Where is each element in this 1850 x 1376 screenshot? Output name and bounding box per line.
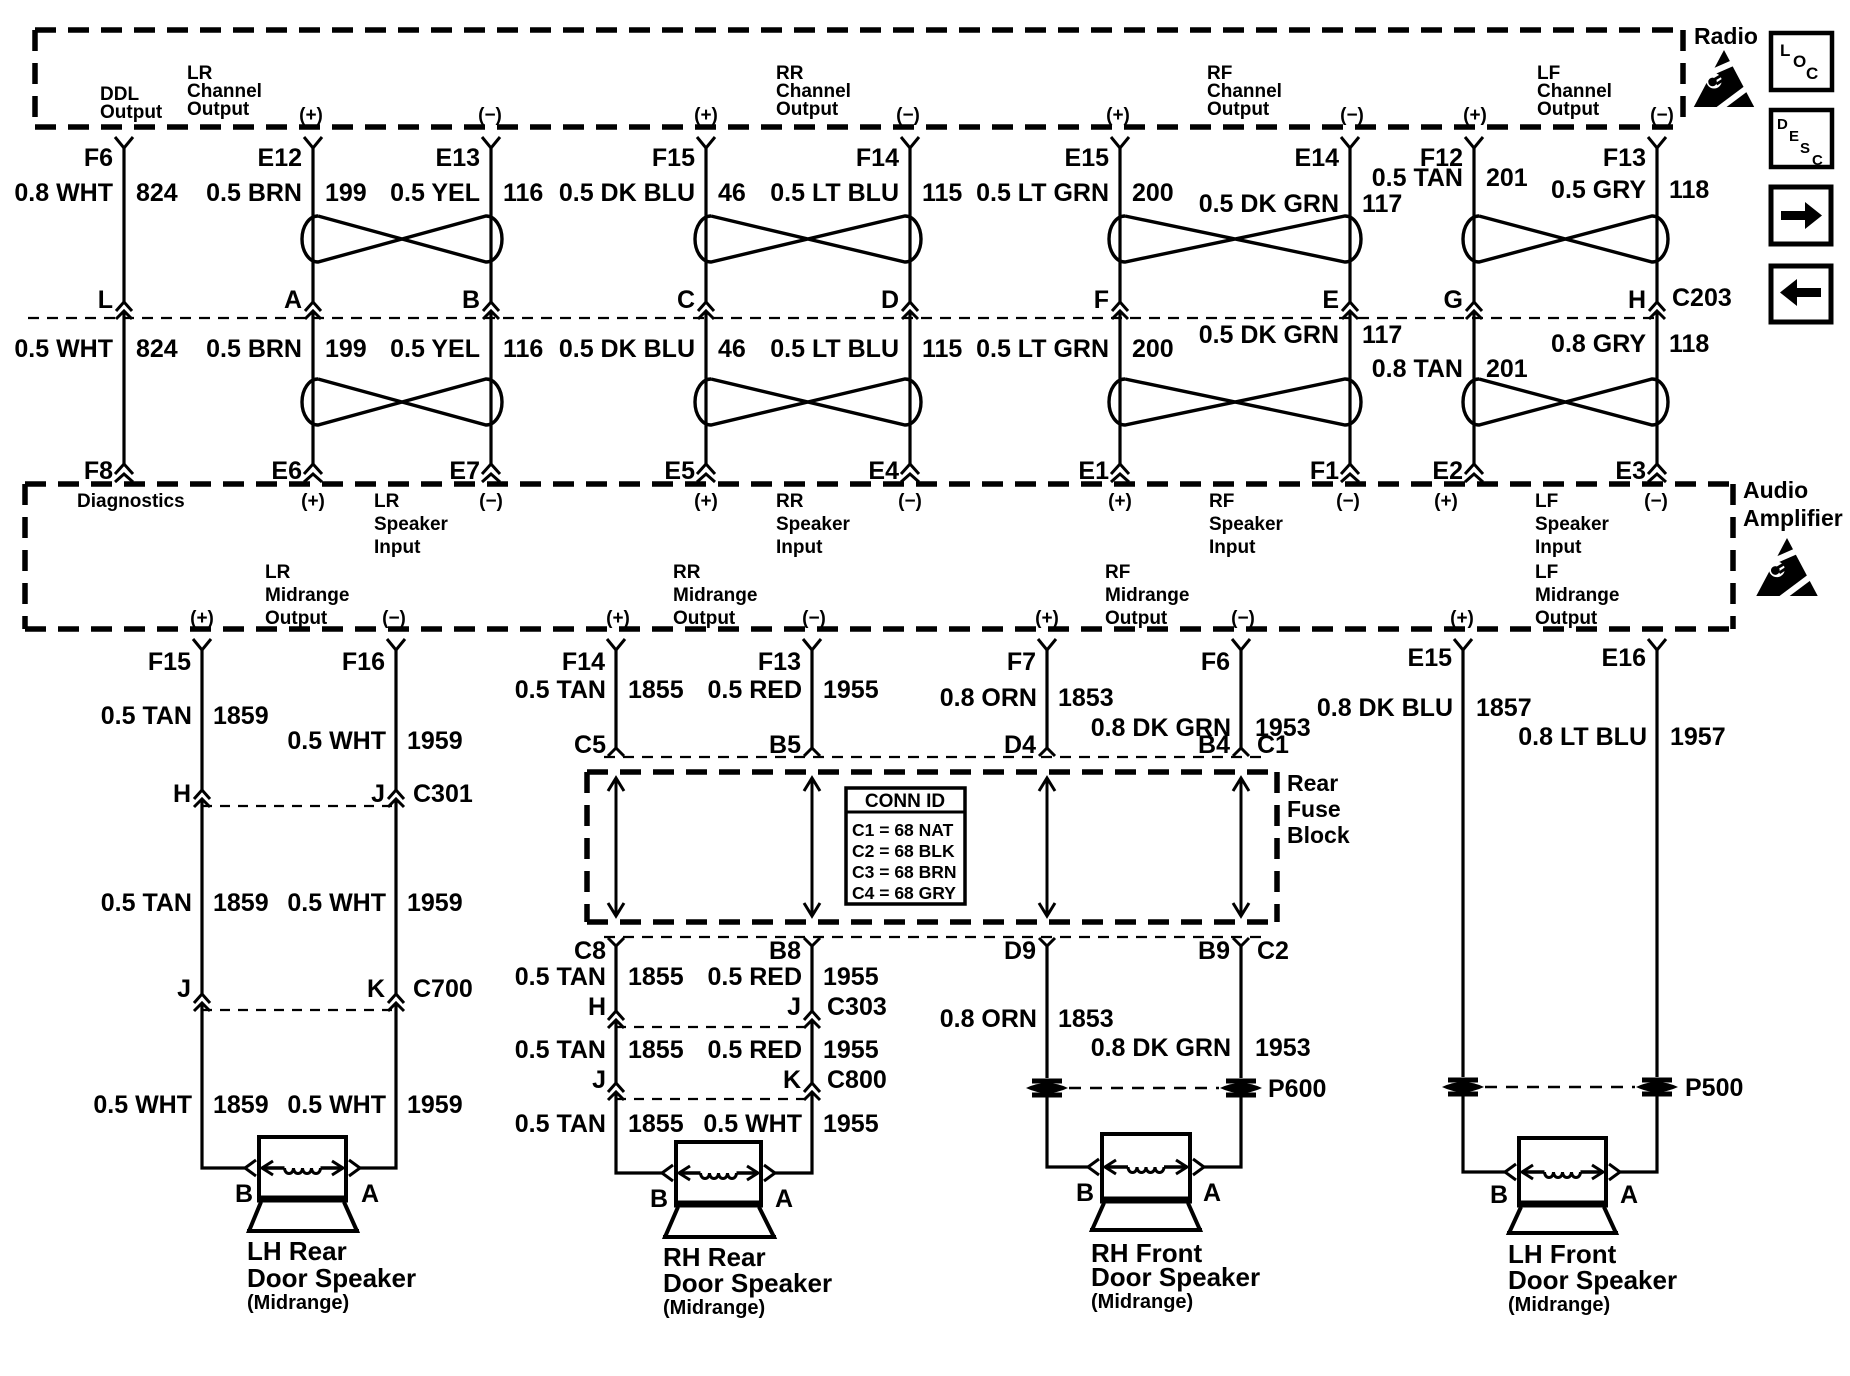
rear fuse block label	[1287, 770, 1350, 848]
wire 0.8 ORN 1853 (F7 to fuse block pin D4)	[940, 650, 1114, 748]
wire 0.5 DK GRN 117 (C203 pin E to amplifier pin F1)	[1199, 311, 1403, 464]
svg-text:(+): (+)	[301, 491, 325, 512]
svg-text:(Midrange): (Midrange)	[663, 1297, 765, 1319]
svg-text:D4: D4	[1004, 731, 1036, 759]
svg-text:E7: E7	[449, 457, 480, 485]
svg-text:D9: D9	[1004, 937, 1036, 965]
svg-text:E13: E13	[436, 144, 480, 172]
svg-text:Output: Output	[100, 102, 163, 123]
svg-text:0.5 TAN: 0.5 TAN	[101, 702, 192, 730]
svg-text:0.5 LT GRN: 0.5 LT GRN	[976, 335, 1109, 363]
svg-text:C303: C303	[827, 993, 887, 1021]
svg-text:1859: 1859	[213, 702, 269, 730]
svg-text:0.8 LT BLU: 0.8 LT BLU	[1518, 723, 1647, 751]
svg-text:A: A	[775, 1185, 793, 1213]
svg-text:0.5 WHT: 0.5 WHT	[703, 1110, 802, 1138]
RH rear speaker pin A label	[775, 1185, 793, 1213]
wire 0.5 YEL 116 (pin E13 to connector C203 pin B)	[390, 148, 543, 302]
amplifier Diagnostics label	[77, 491, 185, 512]
svg-text:Block: Block	[1287, 822, 1350, 848]
amplifier RF Speaker Input label	[1209, 491, 1284, 558]
LH rear speaker pin B label	[235, 1180, 253, 1208]
svg-text:C: C	[677, 286, 695, 314]
amplifier (+) speaker input pin label	[301, 491, 325, 512]
twisted pair symbol LF channel (lower)	[1463, 379, 1668, 425]
svg-text:1855: 1855	[628, 1036, 684, 1064]
svg-text:0.5 BRN: 0.5 BRN	[206, 335, 302, 363]
connector C203 pin F	[1094, 286, 1128, 319]
radio pin F13	[1603, 137, 1666, 172]
radio pin F15	[652, 137, 715, 172]
amplifier pin E1	[1078, 457, 1129, 485]
radio pin E12	[258, 137, 322, 172]
svg-text:1853: 1853	[1058, 684, 1114, 712]
svg-text:C301: C301	[413, 780, 473, 808]
svg-text:K: K	[367, 975, 385, 1003]
svg-text:F14: F14	[856, 144, 899, 172]
RH Rear Door Speaker name label	[663, 1242, 832, 1319]
svg-text:Door Speaker: Door Speaker	[1091, 1262, 1260, 1292]
svg-text:1859: 1859	[213, 889, 269, 917]
svg-text:S: S	[1800, 140, 1810, 157]
amplifier pin F15	[148, 639, 211, 676]
amplifier LR Speaker Input label	[374, 491, 449, 558]
fuse block pin C5	[574, 731, 624, 759]
svg-text:(+): (+)	[190, 608, 214, 629]
svg-text:Door Speaker: Door Speaker	[247, 1263, 416, 1293]
svg-text:(Midrange): (Midrange)	[1091, 1291, 1193, 1313]
rear fuse block box	[587, 772, 1277, 922]
svg-text:C203: C203	[1672, 284, 1732, 312]
CONN ID table	[846, 788, 965, 904]
svg-text:E15: E15	[1408, 644, 1453, 672]
svg-text:B: B	[1490, 1181, 1508, 1209]
svg-text:B9: B9	[1198, 937, 1230, 965]
wire 0.5 WHT 1955 (C800 to RH rear speaker pin A)	[703, 1092, 878, 1173]
radio (+) pin label	[694, 105, 718, 126]
svg-text:0.5 WHT: 0.5 WHT	[93, 1091, 192, 1119]
svg-text:Fuse: Fuse	[1287, 796, 1341, 822]
connector C203 pin A	[284, 286, 321, 319]
svg-text:(+): (+)	[1434, 491, 1458, 512]
svg-text:E12: E12	[258, 144, 302, 172]
svg-text:RR: RR	[776, 491, 804, 512]
speaker RH Front Door Speaker (Midrange)	[1088, 1134, 1204, 1230]
svg-text:E6: E6	[271, 457, 302, 485]
svg-text:Speaker: Speaker	[374, 514, 449, 535]
wire 0.5 WHT 1959 (C301 to C700 pin K)	[287, 799, 462, 994]
svg-text:E4: E4	[868, 457, 899, 485]
amplifier pin F13	[758, 639, 821, 676]
svg-text:199: 199	[325, 335, 367, 363]
grommet P600 right	[1220, 1081, 1262, 1095]
svg-text:1955: 1955	[823, 676, 879, 704]
svg-text:(+): (+)	[694, 491, 718, 512]
connector C700 pin K	[367, 975, 404, 1011]
svg-text:0.8 ORN: 0.8 ORN	[940, 684, 1037, 712]
speaker RH Rear Door Speaker (Midrange)	[662, 1142, 776, 1237]
forward arrow box	[1771, 187, 1831, 244]
svg-text:46: 46	[718, 179, 746, 207]
svg-text:Midrange: Midrange	[1535, 585, 1619, 606]
svg-text:Midrange: Midrange	[1105, 585, 1189, 606]
svg-text:0.5 TAN: 0.5 TAN	[515, 1110, 606, 1138]
svg-text:117: 117	[1362, 190, 1402, 218]
svg-text:0.5 WHT: 0.5 WHT	[14, 335, 113, 363]
LH front speaker pin B label	[1490, 1181, 1508, 1209]
svg-text:F13: F13	[1603, 144, 1646, 172]
svg-text:B8: B8	[769, 937, 801, 965]
svg-text:C8: C8	[574, 937, 606, 965]
svg-text:F14: F14	[562, 648, 605, 676]
svg-text:Door Speaker: Door Speaker	[663, 1268, 832, 1298]
twisted pair symbol LR channel (upper)	[302, 216, 502, 262]
amplifier (+) speaker input pin label	[694, 491, 718, 512]
svg-text:0.5 LT BLU: 0.5 LT BLU	[770, 179, 899, 207]
LH front speaker pin A label	[1620, 1181, 1638, 1209]
svg-text:RF: RF	[1209, 491, 1234, 512]
svg-text:201: 201	[1486, 355, 1528, 383]
amplifier LR Midrange Output label	[265, 562, 349, 629]
svg-text:C1: C1	[1257, 731, 1289, 759]
amplifier (+) midrange output pin label	[1035, 608, 1059, 629]
radio ESD sensitive symbol	[1690, 50, 1758, 109]
svg-text:200: 200	[1132, 179, 1174, 207]
connector C203 pin C	[677, 286, 714, 319]
connector C301 pin J	[371, 780, 404, 808]
radio (+) pin label	[1106, 105, 1130, 126]
svg-text:(−): (−)	[1650, 105, 1674, 126]
svg-text:F8: F8	[84, 457, 113, 485]
radio (+) pin label	[299, 105, 323, 126]
amplifier pin E7	[449, 457, 500, 485]
amplifier (+) speaker input pin label	[1434, 491, 1458, 512]
amplifier (-) speaker input pin label	[1644, 491, 1668, 512]
svg-text:RF: RF	[1105, 562, 1130, 583]
wire 0.5 TAN 1855 (C800 to RH rear speaker pin B)	[515, 1092, 684, 1173]
svg-text:Output: Output	[1105, 608, 1168, 629]
fuse block internal circuit B4-B9 arrow	[1233, 778, 1249, 916]
svg-text:1855: 1855	[628, 963, 684, 991]
svg-text:C2 = 68 BLK: C2 = 68 BLK	[852, 841, 955, 861]
svg-text:A: A	[284, 286, 302, 314]
fuse block pin D4	[1004, 731, 1055, 759]
svg-text:(−): (−)	[896, 105, 920, 126]
svg-text:0.5 WHT: 0.5 WHT	[287, 727, 386, 755]
svg-text:(−): (−)	[1231, 608, 1255, 629]
wire 0.5 TAN 201 (pin F12 to connector C203 pin G)	[1372, 148, 1528, 302]
grommet P500 dashed link and label	[1485, 1074, 1743, 1102]
svg-text:1855: 1855	[628, 676, 684, 704]
fuse block connector C1 label	[1257, 731, 1289, 759]
back arrow box	[1771, 266, 1831, 322]
speaker LH Rear Door Speaker (Midrange)	[245, 1137, 360, 1231]
amplifier pin F16	[342, 639, 405, 676]
amplifier RF Midrange Output label	[1105, 562, 1189, 629]
amplifier pin F8	[84, 457, 133, 485]
svg-text:F16: F16	[342, 648, 385, 676]
amplifier pin F1	[1310, 457, 1359, 485]
amplifier pin F7	[1007, 639, 1056, 676]
fuse block internal circuit D4-D9 arrow	[1039, 778, 1055, 916]
amplifier pin E4	[868, 457, 919, 485]
twisted pair symbol RF channel (lower)	[1109, 379, 1361, 425]
amplifier (+) speaker input pin label	[1108, 491, 1132, 512]
svg-text:B: B	[235, 1180, 253, 1208]
svg-text:1955: 1955	[823, 1036, 879, 1064]
connector C203 line	[28, 284, 1732, 318]
svg-text:115: 115	[922, 335, 962, 363]
twisted pair symbol RF channel (upper)	[1109, 216, 1361, 262]
svg-text:115: 115	[922, 179, 962, 207]
svg-text:117: 117	[1362, 321, 1402, 349]
svg-text:(+): (+)	[1450, 608, 1474, 629]
svg-text:L: L	[98, 286, 113, 314]
svg-text:1855: 1855	[628, 1110, 684, 1138]
svg-text:O: O	[1793, 52, 1806, 71]
svg-text:(−): (−)	[898, 491, 922, 512]
svg-text:(−): (−)	[1644, 491, 1668, 512]
radio pin E15	[1065, 137, 1129, 172]
connector C203 pin E	[1322, 286, 1358, 319]
RH front speaker pin B label	[1076, 1179, 1094, 1207]
amplifier (+) midrange output pin label	[190, 608, 214, 629]
twisted pair symbol LF channel (upper)	[1463, 216, 1668, 262]
LH Front Door Speaker name label	[1508, 1239, 1677, 1316]
wire 0.5 YEL 116 (C203 pin B to amplifier pin E7)	[390, 311, 543, 464]
svg-text:E5: E5	[664, 457, 695, 485]
svg-text:1957: 1957	[1670, 723, 1726, 751]
speaker LH Front Door Speaker (Midrange)	[1505, 1138, 1620, 1233]
svg-text:Output: Output	[1535, 608, 1598, 629]
svg-text:116: 116	[503, 335, 543, 363]
svg-text:(Midrange): (Midrange)	[247, 1292, 349, 1314]
wire 0.5 WHT 1959 (F16 to C301 pin J)	[287, 650, 462, 790]
amplifier RR Speaker Input label	[776, 491, 851, 558]
svg-text:Midrange: Midrange	[673, 585, 757, 606]
svg-text:0.5 TAN: 0.5 TAN	[515, 1036, 606, 1064]
svg-text:E1: E1	[1078, 457, 1109, 485]
amplifier (-) midrange output pin label	[802, 608, 826, 629]
svg-text:0.5 TAN: 0.5 TAN	[515, 963, 606, 991]
wire 0.5 TAN 1859 (C301 to C700 pin J)	[101, 799, 269, 994]
svg-text:0.5 DK BLU: 0.5 DK BLU	[559, 335, 695, 363]
wire 0.5 LT BLU 115 (C203 pin D to amplifier pin E4)	[770, 311, 962, 464]
radio (-) pin label	[896, 105, 920, 126]
connector C700 pin J	[177, 975, 210, 1011]
svg-text:B: B	[462, 286, 480, 314]
svg-text:F1: F1	[1310, 457, 1339, 485]
fuse block pin B5	[769, 731, 820, 759]
amplifier (-) speaker input pin label	[1336, 491, 1360, 512]
connector C303 pin J	[787, 993, 820, 1028]
radio (-) pin label	[1650, 105, 1674, 126]
svg-text:A: A	[1203, 1179, 1221, 1207]
amplifier (-) speaker input pin label	[898, 491, 922, 512]
radio pin F6	[84, 137, 133, 172]
svg-text:E14: E14	[1295, 144, 1340, 172]
amplifier pin F6	[1201, 639, 1250, 676]
wire 0.5 DK BLU 46 (pin F15 to connector C203 pin C)	[559, 148, 746, 302]
amplifier pin E2	[1432, 457, 1483, 485]
amplifier (+) midrange output pin label	[1450, 608, 1474, 629]
svg-text:Output: Output	[265, 608, 328, 629]
svg-text:(+): (+)	[299, 105, 323, 126]
svg-text:0.5 WHT: 0.5 WHT	[287, 1091, 386, 1119]
wire 0.8 DK BLU 1857 (E15 to grommet P500)	[1317, 650, 1532, 1077]
svg-text:C4 = 68 GRY: C4 = 68 GRY	[852, 883, 956, 903]
radio RR Channel Output label	[776, 63, 851, 120]
fuse block connector C2 line	[604, 936, 1266, 938]
wire 0.5 DK GRN 117 (pin E14 to connector C203 pin E)	[1199, 148, 1403, 302]
svg-text:H: H	[588, 993, 606, 1021]
wire 0.5 WHT 824 (C203 pin L to amplifier pin F8)	[14, 311, 177, 464]
twisted pair symbol RR channel (upper)	[695, 216, 921, 262]
connector C303 line	[616, 993, 887, 1027]
connector C203 pin B	[462, 286, 499, 319]
wire 0.8 DK GRN 1953 (F6 to fuse block pin B4)	[1091, 650, 1311, 748]
wire 0.5 RED 1955 (F13 to fuse block pin B5)	[708, 650, 879, 748]
connector C700 line	[202, 975, 473, 1010]
amplifier (-) midrange output pin label	[1231, 608, 1255, 629]
svg-text:1955: 1955	[823, 963, 879, 991]
RH front speaker pin A label	[1203, 1179, 1221, 1207]
wire 0.8 ORN 1853 (D9 to grommet P600)	[940, 946, 1114, 1078]
radio DDL Output label	[100, 84, 163, 123]
svg-text:(−): (−)	[802, 608, 826, 629]
radio (-) pin label	[478, 105, 502, 126]
svg-text:0.5 RED: 0.5 RED	[708, 1036, 802, 1064]
svg-text:E15: E15	[1065, 144, 1110, 172]
amplifier ESD sensitive symbol	[1752, 538, 1821, 598]
connector C303 pin H	[588, 993, 624, 1028]
svg-text:116: 116	[503, 179, 543, 207]
svg-text:Input: Input	[776, 537, 823, 558]
svg-text:B5: B5	[769, 731, 801, 759]
wire 0.5 BRN 199 (pin E12 to connector C203 pin A)	[206, 148, 367, 302]
svg-text:J: J	[371, 780, 385, 808]
svg-text:J: J	[787, 993, 801, 1021]
svg-text:0.8 ORN: 0.8 ORN	[940, 1005, 1037, 1033]
svg-text:Input: Input	[374, 537, 421, 558]
wire 0.5 TAN 1859 (F15 to C301 pin H)	[101, 650, 269, 790]
svg-text:201: 201	[1486, 164, 1528, 192]
fuse block internal circuit B5-B8 arrow	[804, 778, 820, 916]
RH rear speaker pin B label	[650, 1185, 668, 1213]
wire 0.8 TAN 201 (C203 pin G to amplifier pin E2)	[1372, 311, 1528, 464]
wire 0.5 TAN 1855 (C8 to C303 pin H)	[515, 946, 684, 1011]
amplifier (+) midrange output pin label	[606, 608, 630, 629]
svg-text:118: 118	[1669, 330, 1709, 358]
svg-text:P500: P500	[1685, 1074, 1743, 1102]
svg-text:(−): (−)	[382, 608, 406, 629]
connector C203 pin H	[1628, 286, 1665, 319]
svg-text:B4: B4	[1198, 731, 1230, 759]
svg-text:(−): (−)	[1340, 105, 1364, 126]
svg-text:0.5 WHT: 0.5 WHT	[287, 889, 386, 917]
svg-text:1959: 1959	[407, 889, 463, 917]
svg-text:0.5 TAN: 0.5 TAN	[1372, 164, 1463, 192]
radio pin F14	[856, 137, 919, 172]
audio amplifier component box	[25, 484, 1733, 629]
fuse block pin B9	[1198, 937, 1249, 965]
wire 0.5 LT GRN 200 (C203 pin F to amplifier pin E1)	[976, 311, 1174, 464]
radio LR Channel Output label	[187, 63, 262, 120]
svg-text:P600: P600	[1268, 1075, 1326, 1103]
svg-text:0.5 TAN: 0.5 TAN	[515, 676, 606, 704]
svg-text:K: K	[783, 1066, 801, 1094]
svg-text:0.8 TAN: 0.8 TAN	[1372, 355, 1463, 383]
svg-text:A: A	[1620, 1181, 1638, 1209]
svg-text:0.5 LT BLU: 0.5 LT BLU	[770, 335, 899, 363]
svg-text:C3 = 68 BRN: C3 = 68 BRN	[852, 862, 957, 882]
svg-text:F7: F7	[1007, 648, 1036, 676]
radio RF Channel Output label	[1207, 63, 1282, 120]
fuse block pin B4	[1198, 731, 1249, 759]
svg-text:199: 199	[325, 179, 367, 207]
svg-text:Input: Input	[1535, 537, 1582, 558]
svg-text:Output: Output	[1207, 99, 1270, 120]
svg-text:G: G	[1444, 286, 1463, 314]
radio label	[1694, 23, 1758, 49]
svg-text:RR: RR	[673, 562, 701, 583]
svg-text:0.8 DK BLU: 0.8 DK BLU	[1317, 694, 1453, 722]
svg-text:CONN ID: CONN ID	[865, 791, 945, 812]
radio pin E14	[1295, 137, 1359, 172]
svg-text:LF: LF	[1535, 491, 1558, 512]
fuse block pin C8	[574, 937, 624, 965]
svg-text:LR: LR	[374, 491, 400, 512]
radio pin F12	[1420, 137, 1483, 172]
fuse block pin B8	[769, 937, 820, 965]
svg-text:H: H	[1628, 286, 1646, 314]
wire 0.5 RED 1955 (B8 to C303 pin J)	[708, 946, 879, 1011]
wire 0.5 WHT 1859 (C700 to LH rear speaker pin B)	[93, 1003, 268, 1168]
amplifier pin F14	[562, 639, 625, 676]
svg-text:Amplifier: Amplifier	[1743, 505, 1843, 531]
grommet P500 left	[1442, 1080, 1484, 1094]
svg-text:C2: C2	[1257, 937, 1289, 965]
svg-text:0.5 LT GRN: 0.5 LT GRN	[976, 179, 1109, 207]
connector C301 pin H	[173, 780, 210, 808]
grommet P600 left	[1026, 1081, 1068, 1095]
connector C203 pin L	[98, 286, 132, 319]
amplifier (-) speaker input pin label	[479, 491, 503, 512]
svg-text:Diagnostics: Diagnostics	[77, 491, 185, 512]
svg-text:C5: C5	[574, 731, 606, 759]
svg-text:J: J	[177, 975, 191, 1003]
svg-text:0.5 RED: 0.5 RED	[708, 676, 802, 704]
svg-text:0.8 GRY: 0.8 GRY	[1551, 330, 1646, 358]
wire 0.8 DK GRN 1953 (B9 to grommet P600)	[1091, 946, 1311, 1078]
svg-text:LH Rear: LH Rear	[247, 1236, 347, 1266]
wire 0.5 TAN 1855 (C303 to C800 pin J)	[515, 1020, 684, 1083]
svg-text:824: 824	[136, 179, 178, 207]
svg-text:0.5 RED: 0.5 RED	[708, 963, 802, 991]
svg-text:Rear: Rear	[1287, 770, 1338, 796]
amplifier pin E16	[1602, 639, 1666, 672]
svg-text:824: 824	[136, 335, 178, 363]
amplifier LF Midrange Output label	[1535, 562, 1619, 629]
svg-text:(−): (−)	[479, 491, 503, 512]
svg-text:Output: Output	[1537, 99, 1600, 120]
svg-text:(+): (+)	[1106, 105, 1130, 126]
svg-text:1955: 1955	[823, 1110, 879, 1138]
svg-text:D: D	[1777, 116, 1788, 133]
LOC reference box	[1771, 33, 1832, 90]
svg-text:C1 = 68 NAT: C1 = 68 NAT	[852, 820, 954, 840]
svg-text:F15: F15	[652, 144, 695, 172]
